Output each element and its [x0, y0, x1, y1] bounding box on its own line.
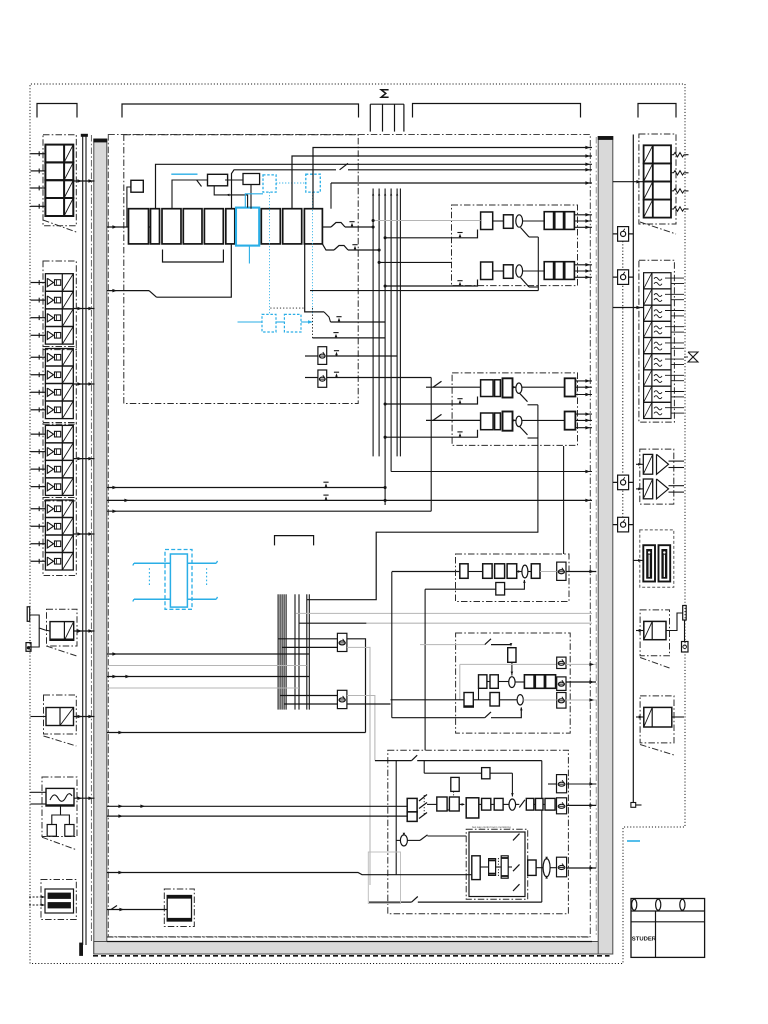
- master section module: [369, 750, 596, 914]
- control room monitor block: [466, 825, 596, 900]
- insert jack component 2: [613, 270, 634, 285]
- chain underbrace: [163, 250, 224, 263]
- group bus feed bundle: [372, 189, 592, 506]
- patch point symbol: [684, 352, 698, 362]
- option block O1 (highlighted): [263, 175, 276, 314]
- group return vertical: [563, 446, 565, 554]
- line input module group 1: [31, 261, 95, 350]
- left bus dash border: [90, 135, 92, 941]
- external line box: [368, 852, 400, 904]
- mix wire B: [107, 495, 592, 502]
- aux send module 1: [310, 205, 592, 291]
- channel processing chain boxes: [107, 209, 322, 244]
- mute feed wire: [270, 308, 385, 338]
- insert block B3: [225, 174, 260, 209]
- channel fader F1: [305, 347, 397, 365]
- insert jack component 3: [613, 475, 634, 490]
- external input transformer module: [29, 880, 76, 920]
- EQ option wiring: [245, 183, 305, 264]
- bus take-off wires: [107, 652, 309, 688]
- monitor fader M2: [280, 690, 390, 760]
- monitor input wire: [107, 871, 472, 875]
- monitor line down: [424, 589, 426, 750]
- bus label bracket 3: [413, 104, 581, 118]
- oscillator module: [107, 889, 194, 927]
- direct out wire 2: [292, 154, 592, 208]
- aux bus wire A: [296, 612, 592, 614]
- aux bus wire B: [299, 622, 592, 624]
- sigma summing symbol: [381, 90, 388, 97]
- aux master select line: [391, 572, 393, 718]
- title block: [631, 899, 705, 958]
- option link wire: [171, 173, 197, 175]
- headphones output module: [636, 696, 684, 755]
- bus distribution wire: [331, 181, 592, 208]
- monitor bus bracket: [275, 536, 314, 546]
- channel fader F2: [305, 370, 431, 387]
- insert jack component 4: [613, 517, 634, 532]
- svg-text:STUDER: STUDER: [632, 937, 657, 943]
- bottom frame dash-dot lines: [93, 937, 610, 956]
- multitrack output module MT: [613, 260, 684, 422]
- channel EQ block (highlighted): [236, 208, 259, 246]
- revision mark (highlighted): [627, 840, 640, 842]
- bus label bracket 4: [638, 104, 676, 118]
- frame: outer dotted section border: [30, 84, 685, 964]
- signal generator module: [31, 777, 95, 850]
- aux master feed wire: [107, 731, 366, 734]
- bus label bracket 1: [37, 104, 77, 118]
- left summing rail: [80, 134, 88, 955]
- bus comb marks: [370, 104, 404, 131]
- pad block B1: [127, 180, 143, 227]
- line transformer option (highlighted): [133, 550, 218, 610]
- chain output wire A: [322, 222, 374, 229]
- direct out wire 3: [156, 163, 593, 209]
- mix wire A: [107, 482, 386, 489]
- mic input module MI: [31, 135, 95, 232]
- right control-room rail: [631, 135, 642, 808]
- studio output module: [636, 606, 688, 669]
- line input module group 3: [31, 423, 95, 501]
- direct out wire 4: [232, 163, 593, 208]
- channel insert return wire: [107, 244, 231, 297]
- channel strip frame: [124, 135, 358, 404]
- console frame: [108, 135, 590, 937]
- insert jack component 1: [613, 227, 634, 242]
- chain output wire B: [322, 244, 380, 251]
- right mix bus bar: [598, 137, 613, 955]
- svg-text:two way control room monitorin: two way control room monitoring: [472, 825, 511, 829]
- right dotted rail: [622, 241, 624, 517]
- stereo master module: [425, 554, 596, 602]
- left mix bus bar: [94, 139, 107, 954]
- mix wire C: [107, 378, 431, 513]
- aux master module: [391, 633, 597, 733]
- line input module group 4: [31, 498, 95, 576]
- meter feed: [633, 559, 643, 562]
- line output module LO: [613, 134, 689, 234]
- right bus dash border: [595, 137, 597, 936]
- monitor bus bundle: [278, 594, 309, 709]
- aux return module: [31, 695, 95, 746]
- monitor feed wire: [392, 571, 460, 573]
- pan option modules (highlighted): [238, 314, 314, 332]
- direct out wire 1: [313, 146, 592, 209]
- group output module: [384, 373, 592, 532]
- bus label bracket 2: [122, 104, 359, 118]
- monitor select wire: [307, 532, 539, 600]
- line input module group 2: [31, 347, 95, 425]
- option block O2 (highlighted): [306, 174, 321, 314]
- control room speaker module: [636, 449, 684, 504]
- fader feed wire: [305, 244, 385, 322]
- bottom mix bus bar: [94, 942, 610, 955]
- talkback mic module: [26, 607, 95, 656]
- phase block B2: [172, 174, 248, 208]
- monitor fader M1: [278, 633, 370, 885]
- level meter module: [640, 530, 674, 587]
- master feed wires: [107, 805, 407, 818]
